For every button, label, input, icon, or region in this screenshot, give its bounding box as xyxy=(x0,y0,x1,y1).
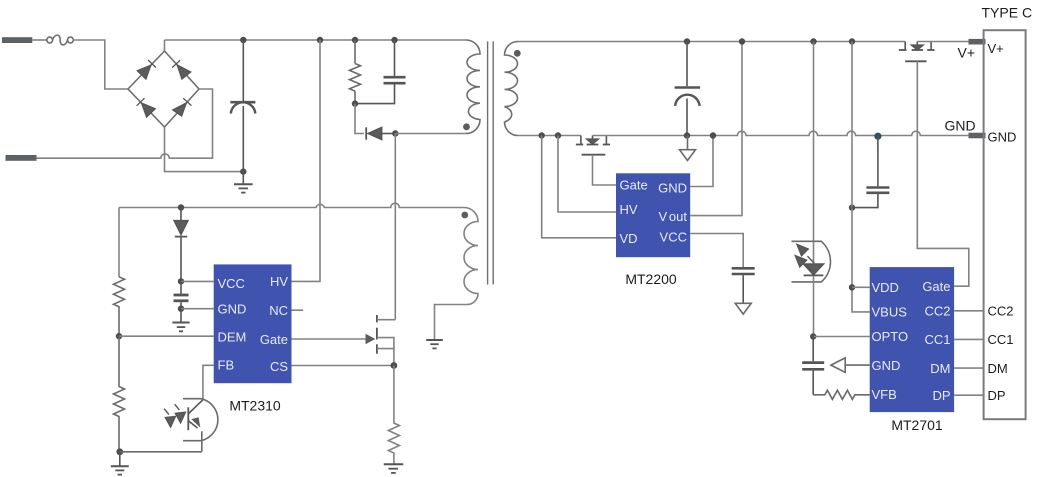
transformer aux winding xyxy=(435,208,479,340)
IC U3 MT2200 body xyxy=(616,173,690,257)
wire FB pin xyxy=(203,365,214,400)
wire HV pin xyxy=(558,136,616,213)
node VDD tap xyxy=(849,284,855,290)
bridge rectifier BD1 frame xyxy=(128,51,199,127)
gate arrowhead xyxy=(366,334,376,344)
svg-text:CC1: CC1 xyxy=(988,332,1014,347)
wire CS pin xyxy=(292,365,394,367)
sync mosfet body diode xyxy=(587,139,598,144)
transistor Q1 mosfet channel xyxy=(376,315,378,354)
svg-text:HV: HV xyxy=(270,274,288,289)
wire vdd riser xyxy=(852,42,870,312)
mosfet Q1 drain stub xyxy=(377,319,395,321)
wire VCC pin xyxy=(181,280,214,282)
node secondary polarity dot xyxy=(514,50,521,57)
node vdd riser cap tap xyxy=(849,204,855,210)
wire led cathode to OPTO xyxy=(813,276,815,337)
svg-text:VD: VD xyxy=(620,231,638,246)
svg-text:GND: GND xyxy=(945,118,976,134)
AC input terminal L xyxy=(2,37,32,43)
node aux diode tap xyxy=(178,204,184,210)
wire drain riser xyxy=(394,134,396,320)
wire Gate to mosfet arrow xyxy=(292,338,367,340)
svg-text:VCC: VCC xyxy=(660,229,687,244)
resistor CS sense R5 xyxy=(388,366,399,465)
node rail bulk cap xyxy=(240,37,246,43)
resistor snubber R2 xyxy=(350,40,361,104)
transformer secondary winding xyxy=(505,42,519,136)
svg-text:VBUS: VBUS xyxy=(872,305,908,320)
ground aux winding xyxy=(426,340,443,348)
node GND junction xyxy=(178,306,184,312)
node vdd riser xyxy=(849,38,855,44)
svg-text:VDD: VDD xyxy=(872,280,899,295)
wire NC stub xyxy=(292,309,304,311)
capacitor VCC C3 xyxy=(174,281,189,308)
svg-text:Gate: Gate xyxy=(620,178,648,193)
wire DP xyxy=(954,394,984,396)
node OPTO tap xyxy=(810,333,816,339)
node opto emitter gnd xyxy=(116,448,123,455)
ground CS resistor xyxy=(384,464,404,473)
svg-text:DEM: DEM xyxy=(218,329,247,344)
svg-text:GND: GND xyxy=(988,130,1017,145)
opto light arrow 1 xyxy=(164,409,175,427)
mosfet Q1 body stub xyxy=(377,338,394,349)
wire terminal L to fuse xyxy=(32,39,47,41)
svg-text:CS: CS xyxy=(270,359,288,374)
svg-text:MT2701: MT2701 xyxy=(891,417,943,433)
svg-text:DP: DP xyxy=(988,388,1006,403)
opto led arrow 1 xyxy=(797,244,814,263)
node VCC junction xyxy=(178,278,184,284)
svg-text:TYPE C: TYPE C xyxy=(982,5,1033,21)
svg-text:GND: GND xyxy=(658,181,687,196)
IC U4 MT2701 body xyxy=(870,267,954,412)
wire OPTO pin xyxy=(813,336,870,338)
pmos body diode xyxy=(912,45,923,50)
svg-text:Vout: Vout xyxy=(658,209,687,224)
svg-text:HV: HV xyxy=(620,202,638,217)
node rail snubber R xyxy=(352,37,358,43)
bridge diode bottom-left xyxy=(137,98,156,117)
svg-text:V+: V+ xyxy=(988,41,1004,56)
bridge diode bottom-right xyxy=(173,98,192,116)
capacitor comp C7 xyxy=(802,337,824,395)
wire DM xyxy=(954,367,984,369)
bridge diode top-left xyxy=(137,60,156,79)
node rail HV riser xyxy=(317,37,323,43)
wire left rail top xyxy=(118,208,120,277)
transistor Q2 sync mosfet xyxy=(576,136,610,155)
transformer primary winding xyxy=(466,40,480,134)
wire bridge top to rail xyxy=(164,40,166,51)
resistor VFB R6 xyxy=(813,390,870,399)
wire CC2 xyxy=(954,310,984,312)
ground left rail xyxy=(111,452,129,475)
transistor Q3 pmos load switch xyxy=(899,42,935,62)
wire GND pin xyxy=(181,308,214,310)
wire pmos to V+ bar xyxy=(917,41,968,43)
wire winding bottom xyxy=(395,133,466,135)
svg-text:MT2310: MT2310 xyxy=(229,398,281,414)
node output cap top xyxy=(684,38,690,44)
fuse F1 xyxy=(47,35,74,45)
opto emitter arrowhead xyxy=(191,417,200,427)
capacitor bulk C1 xyxy=(230,40,255,172)
node clamp anode winding xyxy=(392,130,398,136)
node GND2 rail xyxy=(710,132,716,138)
opto light arrow 2 xyxy=(175,404,186,423)
node Vout rail xyxy=(739,38,745,44)
wire Vout sense riser xyxy=(690,42,742,216)
IC U1 MT2310 body xyxy=(214,264,292,383)
bridge diode top-right xyxy=(172,60,191,79)
svg-text:CC1: CC1 xyxy=(924,332,950,347)
wire VCC2 pin xyxy=(690,234,743,268)
ground MT2701 triangle left xyxy=(831,358,870,373)
wire snubber to clamp diode xyxy=(355,104,364,134)
connector TYPE C box xyxy=(984,30,1026,419)
svg-text:Gate: Gate xyxy=(260,332,288,347)
capacitor snubber C2 xyxy=(355,40,406,104)
wire pmos gate route xyxy=(917,61,969,286)
svg-text:GND: GND xyxy=(872,358,901,373)
diode clamp D1 xyxy=(366,127,395,139)
svg-text:CC2: CC2 xyxy=(988,304,1014,319)
optocoupler U2 phototransistor xyxy=(120,399,218,452)
node output cap bottom xyxy=(684,132,690,138)
diode aux rectifier D2 xyxy=(174,208,188,282)
gnd rail secondary right xyxy=(593,131,969,135)
optocoupler U2 LED xyxy=(792,241,831,282)
resistor DEM lower R4 xyxy=(114,336,125,452)
gnd rail secondary left xyxy=(518,135,581,137)
ground VCC2 triangle xyxy=(735,303,751,314)
node snubber RC junction xyxy=(352,100,358,106)
svg-text:DP: DP xyxy=(932,388,950,403)
svg-text:CC2: CC2 xyxy=(924,304,950,319)
wire GND2 pin xyxy=(690,136,713,187)
node gnd rail blue xyxy=(874,133,881,140)
svg-text:NC: NC xyxy=(269,303,288,318)
node aux polarity dot xyxy=(461,212,468,219)
node DEM tap xyxy=(116,333,122,339)
wire VDD pin xyxy=(852,286,870,288)
ground secondary triangle xyxy=(680,136,696,161)
svg-text:MT2200: MT2200 xyxy=(625,271,677,287)
terminal GND bar xyxy=(969,133,986,139)
ground MT2310 GND xyxy=(172,309,189,332)
wire DEM pin xyxy=(119,335,214,337)
top rail primary xyxy=(165,39,467,41)
AC input terminal N xyxy=(6,155,37,161)
svg-text:DM: DM xyxy=(930,361,950,376)
opto led triangle xyxy=(804,264,824,275)
capacitor VCC2 C5 xyxy=(732,268,755,303)
ground primary bulk xyxy=(234,172,253,193)
wire CC1 xyxy=(954,338,984,340)
svg-text:DM: DM xyxy=(988,361,1008,376)
resistor DEM upper R3 xyxy=(114,277,125,336)
node HV riser xyxy=(555,132,561,138)
node opto led riser xyxy=(810,38,816,44)
node VD riser xyxy=(539,132,545,138)
capacitor output C4 xyxy=(675,42,701,136)
wire HV riser xyxy=(292,40,321,281)
terminal V+ bar xyxy=(969,39,986,45)
transformer core xyxy=(488,41,494,284)
svg-text:GND: GND xyxy=(218,301,247,316)
node CS source xyxy=(391,362,398,369)
node bridge-cap gnd xyxy=(240,168,246,174)
opto led arrow 2 xyxy=(795,256,812,272)
svg-text:V+: V+ xyxy=(958,45,976,61)
top rail secondary V+ xyxy=(518,41,905,43)
mosfet Q1 source stub xyxy=(377,349,394,366)
node primary polarity dot xyxy=(463,123,470,130)
wire sync gate xyxy=(593,155,617,185)
wire aux rail xyxy=(119,203,464,207)
svg-text:OPTO: OPTO xyxy=(872,329,909,344)
wire bridge bottom to gnd rail xyxy=(165,127,244,172)
svg-text:Gate: Gate xyxy=(922,279,950,294)
wire VD pin xyxy=(542,136,616,238)
wire opto led riser xyxy=(813,42,815,264)
wire terminal N with hop xyxy=(37,89,213,158)
capacitor vdd C6 xyxy=(852,136,889,207)
svg-text:VCC: VCC xyxy=(218,276,245,291)
node rail snubber C xyxy=(391,37,397,43)
wire fuse to bridge xyxy=(73,40,128,89)
svg-text:VFB: VFB xyxy=(872,387,897,402)
svg-text:FB: FB xyxy=(218,358,235,373)
